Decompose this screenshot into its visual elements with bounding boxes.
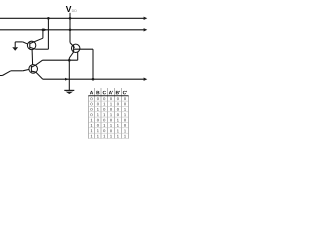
svg-text:DD: DD: [72, 9, 78, 13]
